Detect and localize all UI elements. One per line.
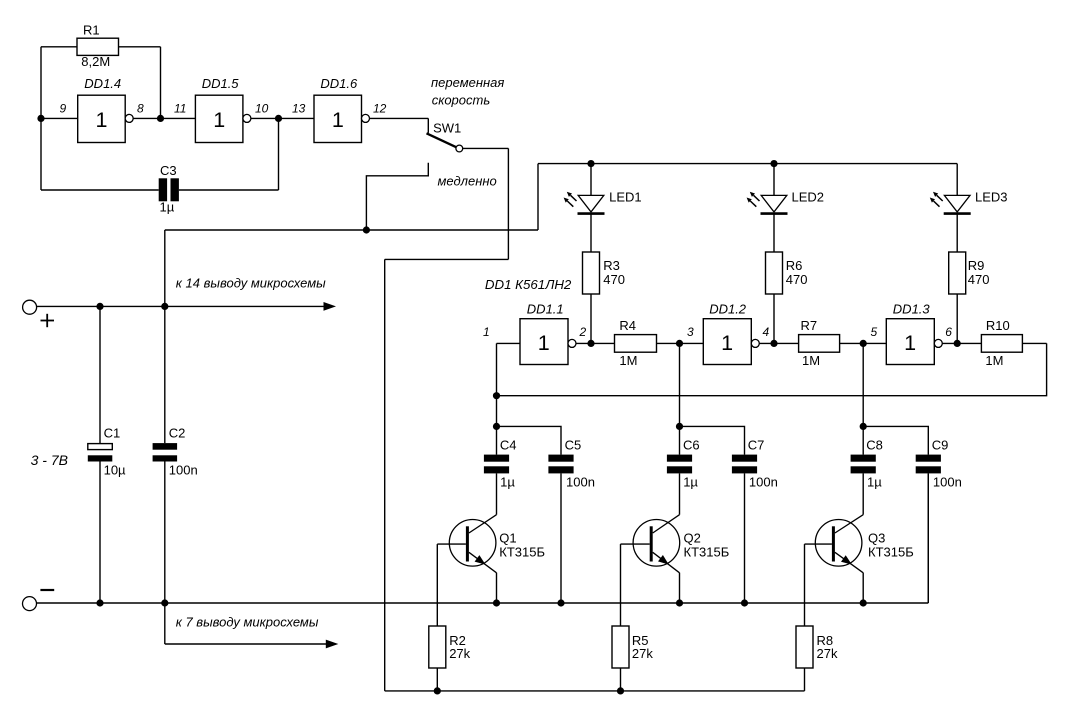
svg-text:1µ: 1µ xyxy=(867,474,882,489)
svg-text:3 - 7В: 3 - 7В xyxy=(31,452,68,468)
svg-text:R4: R4 xyxy=(619,318,636,333)
svg-text:R9: R9 xyxy=(968,258,985,273)
svg-text:100n: 100n xyxy=(169,463,198,478)
svg-text:C3: C3 xyxy=(160,163,177,178)
svg-text:9: 9 xyxy=(60,102,67,116)
svg-text:скорость: скорость xyxy=(432,93,491,108)
svg-text:R7: R7 xyxy=(801,318,818,333)
svg-text:3: 3 xyxy=(687,325,694,339)
svg-text:DD1 К561ЛН2: DD1 К561ЛН2 xyxy=(485,277,572,292)
svg-text:C9: C9 xyxy=(932,438,949,453)
svg-text:SW1: SW1 xyxy=(433,120,461,135)
svg-text:медленно: медленно xyxy=(438,173,497,188)
svg-text:1M: 1M xyxy=(619,353,637,368)
svg-text:13: 13 xyxy=(292,102,306,116)
svg-text:переменная: переменная xyxy=(431,75,504,90)
svg-text:LED1: LED1 xyxy=(609,189,642,204)
svg-text:4: 4 xyxy=(763,325,770,339)
svg-text:27k: 27k xyxy=(449,646,470,661)
svg-text:470: 470 xyxy=(968,272,990,287)
svg-text:1µ: 1µ xyxy=(500,474,515,489)
svg-text:10µ: 10µ xyxy=(104,463,126,478)
svg-text:C4: C4 xyxy=(500,438,517,453)
svg-text:27k: 27k xyxy=(817,646,838,661)
svg-text:1: 1 xyxy=(332,108,344,132)
svg-text:R6: R6 xyxy=(786,258,803,273)
svg-text:DD1.4: DD1.4 xyxy=(84,76,121,91)
svg-text:к 7 выводу микросхемы: к 7 выводу микросхемы xyxy=(176,614,319,629)
svg-text:1: 1 xyxy=(904,331,916,355)
svg-text:1: 1 xyxy=(538,331,550,355)
svg-text:R10: R10 xyxy=(986,318,1010,333)
svg-text:6: 6 xyxy=(945,325,952,339)
svg-text:C6: C6 xyxy=(683,438,700,453)
svg-text:10: 10 xyxy=(255,102,269,116)
svg-text:C2: C2 xyxy=(169,426,186,441)
svg-text:12: 12 xyxy=(373,102,387,116)
svg-text:470: 470 xyxy=(786,272,808,287)
svg-text:1µ: 1µ xyxy=(683,474,698,489)
svg-text:DD1.2: DD1.2 xyxy=(709,302,747,317)
svg-text:КТ315Б: КТ315Б xyxy=(684,545,730,560)
svg-text:R1: R1 xyxy=(83,23,100,38)
svg-text:1: 1 xyxy=(721,331,733,355)
svg-text:1µ: 1µ xyxy=(160,199,175,214)
svg-text:DD1.6: DD1.6 xyxy=(320,76,358,91)
svg-text:1M: 1M xyxy=(802,353,820,368)
svg-text:LED3: LED3 xyxy=(975,189,1008,204)
svg-text:1: 1 xyxy=(483,325,490,339)
svg-text:к 14 выводу микросхемы: к 14 выводу микросхемы xyxy=(176,275,326,290)
svg-text:100n: 100n xyxy=(566,474,595,489)
svg-text:1M: 1M xyxy=(985,353,1003,368)
svg-text:КТ315Б: КТ315Б xyxy=(499,545,545,560)
svg-text:2: 2 xyxy=(579,325,587,339)
svg-text:11: 11 xyxy=(174,102,186,116)
svg-text:5: 5 xyxy=(871,325,878,339)
svg-text:C5: C5 xyxy=(565,438,582,453)
svg-text:8,2М: 8,2М xyxy=(81,54,110,69)
svg-text:Q1: Q1 xyxy=(499,531,516,546)
svg-text:1: 1 xyxy=(213,108,225,132)
svg-text:Q2: Q2 xyxy=(684,531,701,546)
svg-text:DD1.5: DD1.5 xyxy=(202,76,240,91)
svg-text:DD1.1: DD1.1 xyxy=(527,302,564,317)
svg-text:100n: 100n xyxy=(933,474,962,489)
svg-text:R3: R3 xyxy=(603,258,620,273)
svg-text:8: 8 xyxy=(137,102,144,116)
svg-text:LED2: LED2 xyxy=(792,189,825,204)
svg-text:C7: C7 xyxy=(748,438,765,453)
svg-text:Q3: Q3 xyxy=(868,531,885,546)
svg-text:27k: 27k xyxy=(632,646,653,661)
svg-text:100n: 100n xyxy=(749,474,778,489)
svg-text:1: 1 xyxy=(96,108,108,132)
svg-text:DD1.3: DD1.3 xyxy=(893,302,931,317)
svg-text:C1: C1 xyxy=(104,426,121,441)
svg-text:C8: C8 xyxy=(866,438,883,453)
svg-text:470: 470 xyxy=(603,272,625,287)
svg-text:КТ315Б: КТ315Б xyxy=(868,545,914,560)
